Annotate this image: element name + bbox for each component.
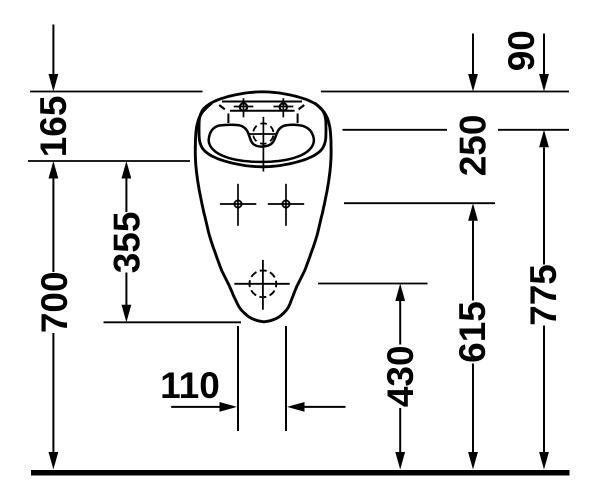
extension line L6 body bottom level xyxy=(104,321,242,323)
outlet cross xyxy=(234,283,289,285)
svg-text:90: 90 xyxy=(501,30,542,71)
mounting rail bottom edge xyxy=(230,110,295,112)
tap hole left circle xyxy=(240,103,247,110)
dim arrow up at L5 x400 xyxy=(395,284,405,302)
svg-text:700: 700 xyxy=(34,271,75,333)
dim arrow down at L1 x473 xyxy=(468,74,478,92)
dim arrow down at floor x53 xyxy=(49,452,59,470)
dim 355 shaft upper xyxy=(125,179,127,213)
dim 110 extension line left xyxy=(237,326,239,431)
dim 110 left arrowhead xyxy=(220,402,238,412)
dim 90 upper shaft x544 xyxy=(543,34,545,76)
urinal outer rim ellipse xyxy=(199,92,326,167)
svg-text:110: 110 xyxy=(160,365,220,406)
dim 775 shaft lower xyxy=(543,326,545,454)
dim arrow up at L2 x544 xyxy=(539,130,549,148)
extension line L2 rim level right segment xyxy=(498,129,569,131)
dim arrow down at floor x473 xyxy=(468,452,478,470)
dim arrow down at floor x544 xyxy=(539,452,549,470)
rail hidden edge dash left xyxy=(219,105,225,109)
dim 775 shaft upper xyxy=(543,147,545,264)
dim 165/700 upper shaft xyxy=(52,25,54,76)
extension line L1 top left xyxy=(30,91,203,93)
dim arrow down at L6 x126 xyxy=(122,305,132,323)
water inlet dashed circle xyxy=(253,123,273,143)
svg-text:355: 355 xyxy=(107,212,148,274)
extension line L5 outlet level xyxy=(318,283,428,285)
dim 700 shaft upper xyxy=(52,179,54,273)
dim 430 shaft lower xyxy=(399,408,401,453)
dim arrow up at L3 x126 xyxy=(122,161,132,179)
dim arrow up at L4 x473 xyxy=(468,203,478,221)
fixing hole left cross xyxy=(220,203,256,205)
dim 615 shaft upper xyxy=(472,221,474,301)
fixing hole left circle xyxy=(234,200,241,207)
urinal body outline xyxy=(195,103,331,322)
dim 700 shaft lower xyxy=(52,333,54,453)
extension line L4 fixing hole level xyxy=(344,202,495,204)
rail stub right xyxy=(297,114,299,124)
svg-text:430: 430 xyxy=(380,345,421,407)
dim arrow down at L1 x544 xyxy=(539,74,549,92)
dim 355 shaft lower xyxy=(125,273,127,306)
dim 250 upper shaft x473 xyxy=(472,34,474,76)
basin opening contour xyxy=(209,125,314,162)
svg-text:775: 775 xyxy=(523,264,564,326)
dim 110 extension line right xyxy=(285,326,287,431)
tap hole right circle xyxy=(280,103,287,110)
dim arrow down at floor x400 xyxy=(395,452,405,470)
svg-text:165: 165 xyxy=(33,96,74,158)
dim arrow down at L1 x53 xyxy=(49,74,59,92)
fixing hole right circle xyxy=(282,200,289,207)
rail stub left xyxy=(227,114,229,124)
outlet dashed circle xyxy=(250,270,277,297)
dim 110 right arrow shaft xyxy=(304,406,345,408)
mounting rail top edge xyxy=(222,101,302,103)
extension line L2 rim level left segment xyxy=(343,129,448,131)
extension line L1 top right xyxy=(321,91,569,93)
rail hidden edge dash right xyxy=(299,105,305,109)
water inlet cross xyxy=(249,133,277,135)
svg-text:250: 250 xyxy=(452,115,493,177)
extension line L3 front rim level xyxy=(28,160,190,162)
tap hole right cross xyxy=(274,106,294,108)
dim 110 left arrow shaft xyxy=(171,406,221,408)
tap hole left cross xyxy=(234,106,254,108)
dim 110 right arrowhead xyxy=(287,402,305,412)
fixing hole right cross xyxy=(268,203,304,205)
dim arrow up at L3 x53 xyxy=(49,161,59,179)
floor line xyxy=(31,470,570,476)
dim 615 shaft lower xyxy=(472,364,474,454)
dim 430 shaft upper xyxy=(399,301,401,345)
svg-text:615: 615 xyxy=(452,301,493,363)
